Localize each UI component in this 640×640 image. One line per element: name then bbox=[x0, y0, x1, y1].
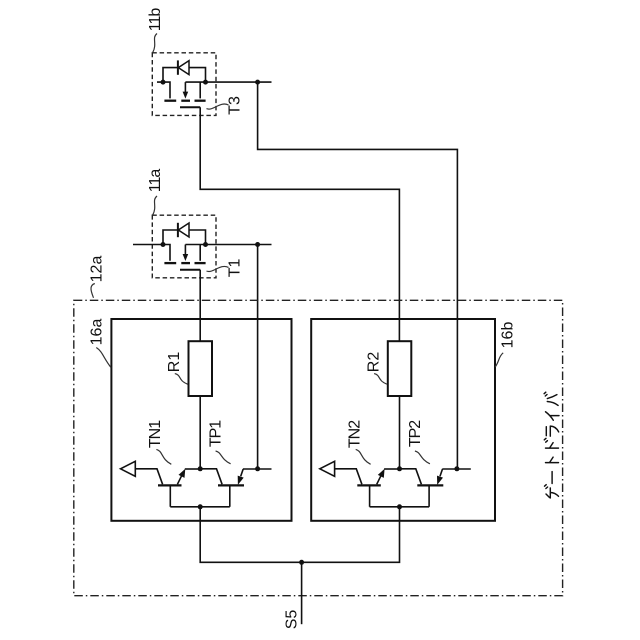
wire S5 stub bbox=[301, 562, 303, 624]
svg-text:R1: R1 bbox=[166, 352, 183, 373]
junction dot emitter node bbox=[255, 466, 260, 471]
wire T3 node bbox=[185, 81, 271, 83]
gate driver block 12a dash-dot box bbox=[74, 300, 563, 595]
label TP2 bbox=[407, 420, 430, 464]
wire base bus bbox=[170, 506, 230, 508]
transistor TP2 bbox=[400, 469, 471, 507]
wire bbox=[199, 396, 201, 469]
label TN2 bbox=[346, 420, 370, 465]
wire T1 drain net (T1 node down to TP1 emitter) bbox=[257, 245, 259, 469]
wire base bus bbox=[370, 506, 430, 508]
junction dot base bus bbox=[198, 504, 203, 509]
junction dot output node bbox=[397, 466, 402, 471]
label R2 bbox=[365, 352, 387, 385]
buffer box 16a bbox=[111, 319, 291, 521]
body diode (in 11b) bbox=[163, 60, 206, 82]
svg-text:T1: T1 bbox=[227, 258, 244, 277]
resistor R1 bbox=[189, 341, 213, 396]
label 11a bbox=[147, 169, 164, 215]
label gate driver (katakana) bbox=[544, 392, 559, 498]
junction dot S5 bbox=[299, 560, 304, 565]
label TN1 bbox=[147, 420, 171, 465]
svg-text:TN2: TN2 bbox=[346, 420, 363, 448]
body diode (in 11a) bbox=[163, 223, 206, 245]
label 16b bbox=[495, 322, 516, 367]
svg-text:16b: 16b bbox=[500, 322, 517, 349]
junction dot T1 bbox=[255, 242, 260, 247]
buffer box 16b bbox=[311, 319, 495, 521]
svg-text:R2: R2 bbox=[365, 352, 382, 373]
wire T3 gate net (gate of 11b to R2) bbox=[200, 107, 399, 341]
svg-text:11a: 11a bbox=[147, 169, 164, 193]
resistor R2 bbox=[388, 341, 412, 396]
svg-text:T3: T3 bbox=[227, 96, 244, 115]
input arrow bbox=[320, 461, 335, 476]
wire T1 node bbox=[185, 244, 271, 246]
wire bbox=[399, 396, 401, 469]
label T1 bbox=[207, 258, 244, 277]
wire output bus to S5 bbox=[200, 507, 399, 563]
label 12a bbox=[89, 256, 106, 298]
switch block 11b dashed box bbox=[152, 53, 216, 116]
label T3 bbox=[207, 96, 244, 115]
svg-text:12a: 12a bbox=[89, 256, 106, 283]
junction dot output node bbox=[198, 466, 203, 471]
wire T3 drain net (T3 node down to TP2 emitter) bbox=[258, 82, 458, 469]
label R1 bbox=[166, 352, 188, 385]
input arrow bbox=[121, 461, 136, 476]
transistor TP1 bbox=[200, 469, 271, 507]
junction dot T3 bbox=[255, 80, 260, 85]
wire T1 gate net (gate of 11a to R1) bbox=[199, 270, 201, 342]
transistor TN2 bbox=[335, 469, 400, 507]
junction dot base bus bbox=[397, 504, 402, 509]
svg-text:S5: S5 bbox=[284, 610, 301, 630]
svg-text:16a: 16a bbox=[89, 319, 106, 346]
svg-text:TP1: TP1 bbox=[208, 420, 225, 447]
transistor TN1 bbox=[135, 469, 200, 507]
svg-text:TN1: TN1 bbox=[147, 420, 164, 448]
label 16a bbox=[89, 319, 112, 368]
MOSFET T3 (in 11b) bbox=[157, 82, 206, 107]
svg-text:11b: 11b bbox=[147, 8, 164, 32]
junction dot emitter node bbox=[454, 466, 459, 471]
label TP1 bbox=[208, 420, 231, 464]
label 11b bbox=[147, 8, 164, 53]
MOSFET T1 (in 11a) bbox=[133, 245, 206, 270]
svg-text:TP2: TP2 bbox=[407, 420, 424, 447]
switch block 11a dashed box bbox=[152, 215, 216, 278]
